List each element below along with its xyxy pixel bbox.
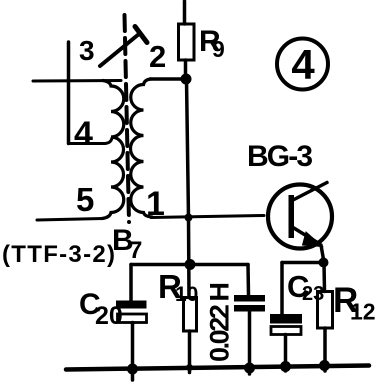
wire R10 bottom lead (188, 331, 192, 373)
wire C20 top lead (129, 265, 133, 301)
wire 0.022 cap top lead (246, 265, 250, 296)
wire R12 top lead (322, 263, 326, 292)
node junction C20/rail (127, 364, 138, 375)
wire R12 bottom lead (323, 328, 327, 371)
wire emitter bus to C23 (282, 261, 324, 265)
wire top lead above R9 (183, 1, 187, 24)
transistor U1 circle (268, 185, 332, 249)
emitter arrowhead (303, 232, 323, 247)
node junction bus/main vertical (185, 259, 196, 270)
wire 0.022 bottom lead (248, 312, 252, 375)
transistor collector line (293, 183, 327, 201)
wire pin1 to transistor base (151, 216, 264, 218)
wire pin3 stub / tap vertical (67, 42, 71, 144)
svg-text:7: 7 (129, 237, 142, 264)
transformer left winding (102, 81, 124, 219)
wire top-left pin3 horizontal (33, 79, 121, 83)
svg-text:20: 20 (95, 302, 123, 330)
node emitter junction (319, 258, 329, 268)
svg-text:0.022 H: 0.022 H (205, 282, 235, 362)
node small junction R10/rail (186, 364, 193, 371)
transformer right winding (131, 79, 153, 217)
wire C23 top lead (280, 263, 284, 315)
svg-text:4: 4 (291, 41, 315, 88)
wire emitter down (321, 245, 324, 263)
wire C23 bottom lead (284, 335, 288, 372)
node junction R12/rail (319, 360, 330, 371)
svg-text:23: 23 (302, 283, 324, 305)
svg-text:1: 1 (146, 185, 165, 223)
svg-text:9: 9 (212, 36, 225, 62)
arrowhead (135, 27, 147, 43)
node junction R9/pin2 (181, 74, 192, 85)
node line (C20/R10/0.022 top bus) (131, 263, 248, 267)
node junction C23/rail (280, 361, 291, 372)
svg-text:5: 5 (76, 181, 94, 218)
svg-text:10: 10 (175, 283, 198, 306)
capacitor C20 (116, 301, 147, 309)
svg-text:(TTF-3-2): (TTF-3-2) (2, 241, 115, 268)
wire R9 bottom to node (184, 60, 188, 79)
figure number circle 4 (277, 39, 328, 90)
transistor base bar (289, 195, 295, 238)
ground rail (66, 366, 369, 370)
transistor emitter line (293, 228, 319, 244)
wire pin5 bottom-left (37, 219, 103, 221)
resistor R9 (179, 24, 195, 60)
capacitor 0.022 (234, 295, 265, 302)
svg-text:3: 3 (79, 35, 95, 66)
node small junction base wire (185, 214, 193, 222)
svg-text:BG-3: BG-3 (247, 140, 313, 173)
transformer B7 core (125, 15, 130, 222)
wire main vertical (187, 79, 190, 298)
wire C20 bottom lead (131, 323, 135, 381)
wire tap 4 horizontal (69, 138, 113, 144)
svg-text:2: 2 (149, 39, 166, 74)
node junction 0.022/rail (244, 363, 255, 374)
wire pin2 to node (150, 77, 186, 81)
svg-text:4: 4 (74, 115, 93, 153)
transformer tuning arrow (100, 34, 139, 66)
resistor R12 (318, 292, 333, 329)
resistor R10 (184, 298, 197, 332)
capacitor C23 (270, 314, 302, 324)
svg-text:12: 12 (350, 299, 376, 325)
